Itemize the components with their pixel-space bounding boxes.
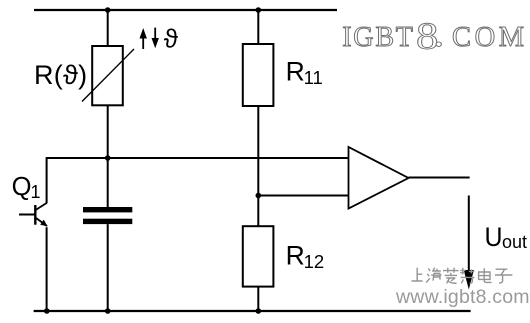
junction dot: divider node (op-amp lower input) xyxy=(255,193,261,199)
junction dot: bottom rail / capacitor branch xyxy=(105,308,111,314)
char shi (mostly hidden by arrow) xyxy=(460,268,474,284)
wire: thermistor to middle node xyxy=(107,105,109,159)
junction dot: bottom rail / R12 branch xyxy=(255,308,261,314)
wire: R12 to bottom rail xyxy=(257,287,259,311)
svg-text:R: R xyxy=(286,241,305,271)
char shang xyxy=(412,268,423,281)
wire: top rail down to R11 xyxy=(257,10,259,44)
wire: op-amp output xyxy=(409,177,470,179)
output arrow Uout xyxy=(464,196,474,290)
label Q1 xyxy=(12,173,41,202)
temperature arrow down xyxy=(152,28,159,49)
junction dot: top rail / R(theta) branch xyxy=(105,7,111,13)
svg-text:R(ϑ): R(ϑ) xyxy=(34,60,87,90)
svg-text:U: U xyxy=(485,222,503,252)
wire: middle node down to capacitor xyxy=(107,158,109,207)
svg-text:COM: COM xyxy=(452,22,528,53)
thermistor R(theta) body xyxy=(92,46,123,105)
svg-text:1: 1 xyxy=(31,182,41,202)
wire: top supply rail xyxy=(34,9,337,11)
char dian xyxy=(479,268,492,282)
svg-text:8.: 8. xyxy=(416,12,444,57)
junction dot: top rail / R11 branch xyxy=(255,7,261,13)
char ling xyxy=(443,268,459,284)
label R12 xyxy=(286,241,325,272)
watermark: Chinese company name (drawn strokes) xyxy=(412,268,513,284)
op-amp U1 xyxy=(349,147,409,209)
wire: middle node horizontal to op-amp + input xyxy=(47,157,349,159)
wire: R11 down across middle wire to divider node xyxy=(257,106,259,226)
label R11 xyxy=(286,56,323,88)
resistor R12 body xyxy=(243,226,274,286)
wire: capacitor to bottom rail xyxy=(107,224,109,311)
temperature arrow up xyxy=(140,28,147,49)
capacitor top plate xyxy=(83,207,132,212)
wire: bottom rail xyxy=(34,310,471,312)
wire: divider node to op-amp lower input xyxy=(258,195,348,197)
svg-text:R: R xyxy=(286,56,305,86)
svg-text:www.igbt8.com: www.igbt8.com xyxy=(395,286,530,308)
wire: Q1 emitter to bottom rail xyxy=(46,227,48,311)
watermark IGBT8.COM xyxy=(342,12,528,57)
svg-text:11: 11 xyxy=(304,67,323,88)
thermistor diagonal stroke xyxy=(82,49,134,102)
label Uout xyxy=(485,222,528,252)
svg-text:IGBT: IGBT xyxy=(342,22,415,53)
junction dot: middle node xyxy=(105,155,111,161)
svg-text:ϑ: ϑ xyxy=(164,24,179,54)
junction dot: bottom rail / emitter branch xyxy=(44,308,50,314)
resistor R11 body xyxy=(243,44,274,106)
svg-text:12: 12 xyxy=(304,251,325,272)
capacitor bottom plate xyxy=(83,219,132,224)
wire: left branch down from middle wire to Q1 collector xyxy=(46,157,48,203)
wire: top rail down to thermistor xyxy=(107,10,109,46)
char hai xyxy=(426,268,441,283)
transistor Q1 xyxy=(19,203,48,227)
char zi xyxy=(495,269,512,283)
svg-text:Q: Q xyxy=(12,173,32,201)
svg-text:out: out xyxy=(502,232,527,252)
